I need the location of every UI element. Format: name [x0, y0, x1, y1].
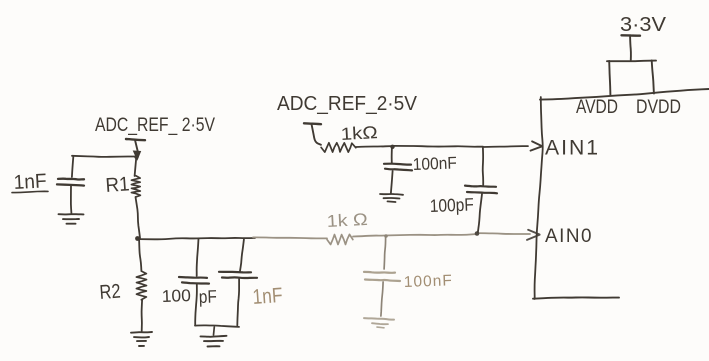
svg-text:1nF: 1nF — [13, 170, 47, 194]
svg-text:AVDD: AVDD — [576, 97, 618, 118]
svg-text:DVDD: DVDD — [636, 97, 681, 118]
svg-text:1nF: 1nF — [252, 284, 284, 309]
svg-text:ADC_REF_2·5V: ADC_REF_2·5V — [277, 93, 418, 115]
svg-text:AIN0: AIN0 — [545, 226, 593, 247]
svg-text:1k Ω: 1k Ω — [326, 210, 368, 231]
svg-text:R2: R2 — [99, 281, 121, 304]
svg-text:100nF: 100nF — [404, 272, 454, 291]
svg-text:1kΩ: 1kΩ — [340, 122, 378, 144]
svg-text:3·3V: 3·3V — [620, 14, 667, 36]
svg-text:AIN1: AIN1 — [545, 136, 600, 160]
svg-text:100pF: 100pF — [429, 194, 474, 216]
svg-text:ADC_REF_ 2·5V: ADC_REF_ 2·5V — [95, 115, 215, 136]
svg-text:100nF: 100nF — [412, 153, 457, 174]
svg-text:R1: R1 — [105, 173, 130, 197]
svg-text:pF: pF — [198, 286, 217, 307]
svg-text:100: 100 — [161, 286, 191, 306]
